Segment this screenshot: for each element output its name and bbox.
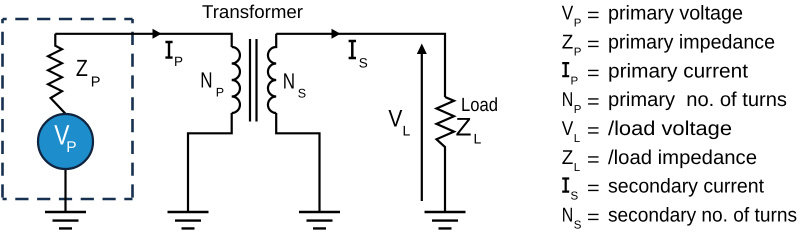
svg-text:/load impedance: /load impedance <box>608 147 757 169</box>
svg-text:=: = <box>587 207 600 229</box>
svg-text:Transformer: Transformer <box>202 1 303 22</box>
svg-text:V: V <box>388 105 402 132</box>
svg-text:=: = <box>587 33 600 55</box>
svg-text:=: = <box>587 62 600 84</box>
svg-text:S: S <box>298 87 306 101</box>
svg-text:=: = <box>587 120 600 142</box>
svg-text:L: L <box>574 162 581 174</box>
svg-text:Z: Z <box>562 31 574 53</box>
svg-text:secondary current: secondary current <box>608 176 764 198</box>
svg-text:P: P <box>216 86 224 100</box>
svg-text:L: L <box>574 133 581 145</box>
svg-text:P: P <box>574 104 582 116</box>
svg-text:P: P <box>66 139 76 156</box>
svg-text:P: P <box>574 18 582 30</box>
svg-text:primary voltage: primary voltage <box>608 3 743 25</box>
svg-text:=: = <box>587 5 600 27</box>
svg-text:N: N <box>200 68 212 93</box>
svg-text:S: S <box>571 191 579 203</box>
svg-text:L: L <box>403 123 411 139</box>
svg-text:P: P <box>174 54 183 69</box>
svg-text:=: = <box>587 149 600 171</box>
svg-text:V: V <box>562 118 574 140</box>
svg-text:L: L <box>474 131 482 147</box>
svg-text:N: N <box>562 205 574 227</box>
svg-text:P: P <box>91 75 101 91</box>
svg-text:secondary no. of turns: secondary no. of turns <box>608 205 797 227</box>
svg-text:P: P <box>571 75 579 87</box>
svg-text:N: N <box>562 89 574 111</box>
svg-text:S: S <box>359 56 368 71</box>
svg-text:Z: Z <box>562 147 574 169</box>
svg-text:N: N <box>283 69 295 94</box>
svg-text:primary current: primary current <box>608 60 748 82</box>
svg-text:primary no. of turns: primary no. of turns <box>608 89 787 111</box>
svg-text:S: S <box>574 220 582 232</box>
svg-text:/load voltage: /load voltage <box>608 118 732 140</box>
svg-text:Z: Z <box>76 55 88 81</box>
svg-text:V: V <box>562 3 574 25</box>
svg-text:=: = <box>587 178 600 200</box>
svg-text:Z: Z <box>456 114 472 142</box>
svg-text:primary impedance: primary impedance <box>608 31 775 53</box>
svg-text:=: = <box>587 91 600 113</box>
svg-text:P: P <box>574 46 582 58</box>
